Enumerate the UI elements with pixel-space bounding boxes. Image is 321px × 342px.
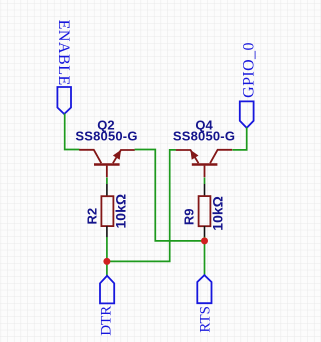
port ENABLE — [55, 20, 72, 114]
resistor R9 — [199, 178, 211, 276]
junction dot DTR node — [103, 258, 110, 265]
transistor Q4 — [176, 150, 233, 177]
port GPIO_0 — [240, 42, 258, 128]
port RTS — [197, 275, 213, 333]
wire Q2 emitter to RTS node — [135, 150, 202, 241]
svg-text:10kΩ: 10kΩ — [113, 194, 129, 229]
junction dot RTS node — [201, 237, 208, 244]
transistor Q2 — [79, 150, 135, 177]
svg-text:SS8050-G: SS8050-G — [173, 129, 235, 144]
port DTR — [99, 276, 115, 336]
wire ENABLE to Q2 collector — [65, 114, 80, 150]
wire Q4 emitter to DTR node — [107, 150, 176, 262]
wire GPIO_0 to Q4 collector — [232, 127, 246, 149]
svg-text:SS8050-G: SS8050-G — [75, 129, 137, 144]
svg-text:10kΩ: 10kΩ — [209, 196, 225, 231]
svg-text:DTR: DTR — [99, 306, 115, 336]
resistor R2 — [101, 178, 113, 276]
svg-text:ENABLE: ENABLE — [55, 20, 72, 86]
svg-text:R2: R2 — [84, 208, 99, 225]
svg-text:RTS: RTS — [197, 306, 213, 333]
svg-text:GPIO_0: GPIO_0 — [241, 42, 258, 98]
svg-text:R9: R9 — [182, 208, 197, 225]
